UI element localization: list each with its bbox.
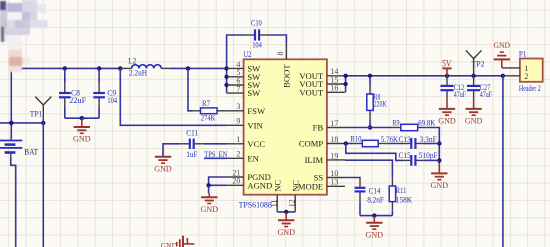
svg-text:C11: C11 xyxy=(186,128,198,138)
svg-text:11: 11 xyxy=(269,200,278,208)
svg-text:TP2: TP2 xyxy=(472,58,485,68)
svg-text:TP1: TP1 xyxy=(30,108,43,118)
svg-text:510pF: 510pF xyxy=(419,151,438,160)
svg-text:16: 16 xyxy=(330,84,338,93)
svg-text:18: 18 xyxy=(330,135,338,144)
svg-text:3: 3 xyxy=(236,102,240,111)
svg-text:GND: GND xyxy=(277,227,295,237)
svg-text:13: 13 xyxy=(330,178,338,187)
svg-text:VOUT: VOUT xyxy=(299,87,324,97)
svg-text:10: 10 xyxy=(330,169,338,178)
svg-text:GND: GND xyxy=(73,134,91,144)
svg-text:SW: SW xyxy=(247,88,261,98)
svg-text:9: 9 xyxy=(236,117,240,126)
svg-text:VCC: VCC xyxy=(247,139,265,149)
svg-text:220K: 220K xyxy=(374,99,387,109)
svg-text:R9: R9 xyxy=(392,117,399,127)
svg-text:7: 7 xyxy=(236,85,240,94)
svg-text:R10: R10 xyxy=(350,134,361,143)
svg-text:GND: GND xyxy=(154,164,172,174)
svg-text:EN: EN xyxy=(247,153,259,163)
svg-text:AGND: AGND xyxy=(247,180,272,190)
svg-text:22uF: 22uF xyxy=(69,95,86,105)
svg-text:2: 2 xyxy=(524,72,528,81)
svg-text:158K: 158K xyxy=(396,195,412,204)
svg-text:P1: P1 xyxy=(519,49,527,59)
svg-text:69.8K: 69.8K xyxy=(418,117,436,127)
svg-text:19: 19 xyxy=(330,151,338,160)
svg-text:274K: 274K xyxy=(201,112,216,122)
svg-text:COMP: COMP xyxy=(299,139,324,149)
svg-text:2: 2 xyxy=(236,150,240,159)
svg-text:TPS61088: TPS61088 xyxy=(239,201,272,210)
svg-text:Header 2: Header 2 xyxy=(519,84,541,93)
svg-text:VIN: VIN xyxy=(247,120,263,130)
svg-text:2.2uH: 2.2uH xyxy=(129,68,147,78)
svg-text:3.3nF: 3.3nF xyxy=(420,135,437,144)
svg-text:NC: NC xyxy=(272,180,282,192)
svg-text:C15: C15 xyxy=(399,151,411,160)
svg-text:47uF: 47uF xyxy=(480,90,493,99)
svg-text:FSW: FSW xyxy=(247,106,266,116)
svg-text:GND: GND xyxy=(366,230,384,240)
svg-text:GND: GND xyxy=(438,116,456,126)
svg-text:MODE: MODE xyxy=(298,181,323,191)
svg-text:GND: GND xyxy=(201,204,219,214)
svg-text:C13: C13 xyxy=(399,135,411,144)
svg-text:FB: FB xyxy=(313,123,324,133)
svg-text:C14: C14 xyxy=(369,187,381,196)
svg-text:12: 12 xyxy=(287,199,296,207)
svg-text:GND: GND xyxy=(431,180,449,190)
svg-text:1: 1 xyxy=(236,135,240,144)
svg-text:L2: L2 xyxy=(128,56,136,66)
svg-text:8: 8 xyxy=(276,52,285,56)
svg-text:47uF: 47uF xyxy=(454,90,467,99)
svg-text:R7: R7 xyxy=(202,98,210,108)
svg-text:5.76K: 5.76K xyxy=(381,135,398,144)
svg-text:ILIM: ILIM xyxy=(305,155,324,165)
svg-text:BOOT: BOOT xyxy=(281,64,291,88)
svg-text:BAT: BAT xyxy=(24,147,39,157)
svg-text:5V: 5V xyxy=(442,58,452,68)
svg-text:1uF: 1uF xyxy=(186,149,197,159)
svg-text:GND: GND xyxy=(161,240,178,247)
svg-text:17: 17 xyxy=(330,119,338,128)
svg-text:R11: R11 xyxy=(396,186,407,195)
svg-text:GND: GND xyxy=(494,40,511,50)
svg-text:C10: C10 xyxy=(251,18,262,28)
svg-text:GND: GND xyxy=(465,116,483,126)
svg-text:104: 104 xyxy=(107,95,117,105)
svg-text:8.2nF: 8.2nF xyxy=(367,195,384,204)
svg-text:NC: NC xyxy=(290,180,300,192)
svg-text:104: 104 xyxy=(252,40,262,50)
svg-text:TPS_EN: TPS_EN xyxy=(204,150,227,159)
svg-text:U2: U2 xyxy=(243,49,251,59)
svg-text:20: 20 xyxy=(232,177,240,186)
